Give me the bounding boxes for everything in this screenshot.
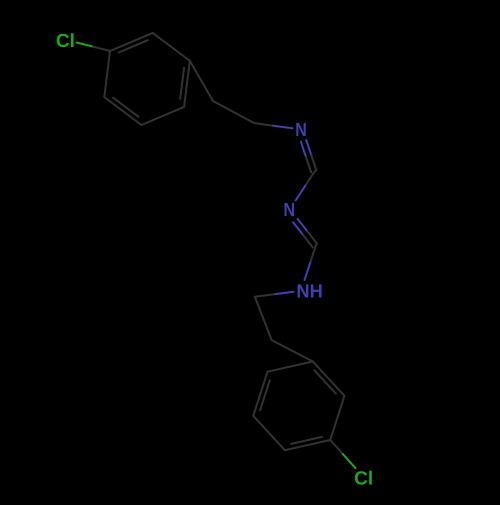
- svg-text:NH: NH: [296, 282, 322, 303]
- svg-text:N: N: [295, 120, 307, 141]
- svg-text:Cl: Cl: [56, 31, 75, 52]
- svg-text:N: N: [284, 200, 296, 221]
- svg-text:Cl: Cl: [354, 469, 373, 490]
